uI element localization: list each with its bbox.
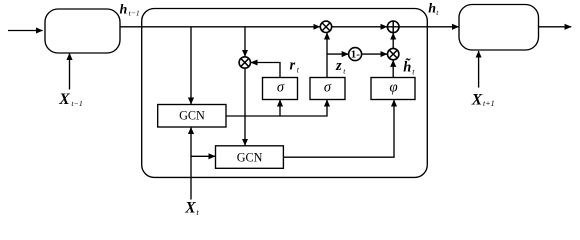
svg-text:t: t	[196, 207, 199, 217]
svg-text:X: X	[184, 199, 196, 216]
svg-text:t: t	[297, 66, 300, 75]
svg-text:t: t	[436, 8, 439, 17]
svg-text:h: h	[428, 2, 436, 17]
svg-text:t: t	[412, 68, 415, 77]
svg-text:X: X	[471, 91, 483, 108]
svg-text:φ: φ	[389, 80, 397, 96]
svg-text:1-: 1-	[351, 49, 361, 61]
svg-text:t: t	[343, 67, 346, 76]
svg-text:r: r	[290, 58, 296, 74]
svg-text:z: z	[335, 58, 342, 74]
svg-text:t−1: t−1	[71, 99, 82, 108]
svg-text:σ: σ	[324, 80, 332, 96]
svg-text:X: X	[58, 91, 70, 108]
svg-text:t−1: t−1	[129, 8, 140, 17]
svg-text:σ: σ	[277, 80, 285, 96]
svg-text:h: h	[120, 2, 128, 17]
svg-text:GCN: GCN	[237, 150, 263, 164]
svg-text:t+1: t+1	[483, 99, 495, 108]
svg-text:h̃: h̃	[403, 57, 411, 75]
svg-text:GCN: GCN	[179, 109, 205, 123]
